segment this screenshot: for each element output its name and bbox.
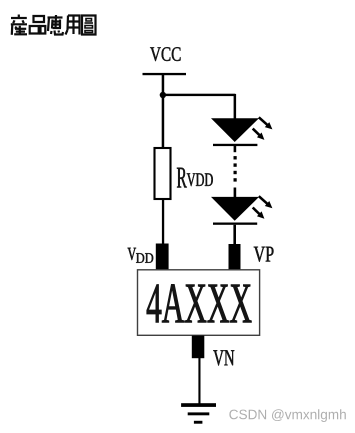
dotted wire (series LEDs): [234, 156, 237, 159]
label R: [177, 168, 187, 188]
junction node: [160, 92, 166, 98]
LED D2 arrow 2: [253, 208, 265, 219]
wire down to LED D1: [234, 94, 237, 119]
LED D1 arrow 1: [259, 117, 273, 129]
LED D2 cathode bar: [213, 223, 257, 225]
char 品: [30, 16, 46, 34]
wire junction to LED branch: [162, 94, 235, 96]
pin pad VDD: [156, 244, 169, 271]
LED D2: [211, 197, 259, 221]
resistor RVDD: [155, 148, 171, 199]
label VDD subscript: [187, 173, 213, 186]
ground symbol: [181, 403, 216, 407]
char 用: [66, 16, 80, 35]
pin pad VP: [229, 244, 241, 270]
char 產: [11, 15, 27, 35]
LED D1: [211, 118, 259, 142]
LED D2 arrow 1: [259, 196, 273, 208]
LED D1 cathode bar: [213, 144, 257, 146]
label VDD pin: V: [128, 248, 137, 260]
label VDD pin: DD: [136, 253, 153, 263]
wire VCC bar to resistor: [162, 75, 165, 148]
char 應: [48, 15, 64, 35]
net label VCC: [150, 47, 180, 61]
pin pad VN: [192, 336, 205, 359]
wire resistor to VDD pin: [162, 199, 164, 244]
wire D2 to VP pin: [233, 225, 236, 245]
VCC power bar: [143, 73, 187, 75]
wire stub below D1: [234, 146, 237, 152]
LED D1 arrow 2: [253, 129, 265, 140]
label VN pin: [213, 350, 234, 365]
wire stub above D2: [234, 188, 237, 198]
watermark CSDN: [229, 409, 345, 422]
char 圖: [82, 16, 96, 35]
wire VN to ground: [198, 358, 200, 404]
IC U1 label 4AXXX: [147, 284, 252, 322]
IC U1 box: [138, 270, 260, 336]
label VP pin: [254, 247, 274, 262]
title 產品應用圖: [11, 15, 96, 35]
